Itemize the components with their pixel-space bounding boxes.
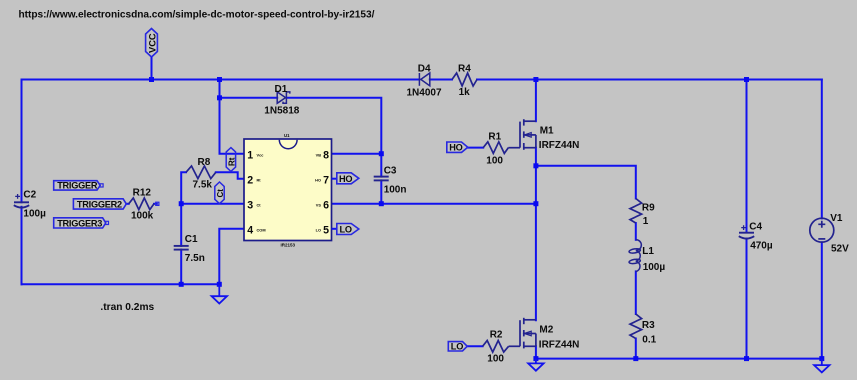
svg-text:100µ: 100µ <box>23 209 46 220</box>
svg-text:Ct: Ct <box>216 189 225 198</box>
chip notch <box>279 140 297 149</box>
svg-text:R8: R8 <box>198 157 211 168</box>
wire C4 top lead <box>746 80 748 233</box>
svg-text:2: 2 <box>247 174 253 186</box>
svg-text:.tran 0.2ms: .tran 0.2ms <box>100 302 154 313</box>
svg-text:100: 100 <box>487 354 504 365</box>
wire left rail upper (to C2) <box>21 80 23 203</box>
svg-text:D4: D4 <box>418 64 431 75</box>
svg-text:Vcc: Vcc <box>257 152 265 157</box>
wire R8 left drop upper <box>181 172 186 246</box>
svg-text:470µ: 470µ <box>750 241 773 252</box>
inductor L1 <box>629 240 642 272</box>
wire C1 bottom lead <box>180 250 182 285</box>
resistor R9 <box>630 199 642 224</box>
wire pin6 VS net <box>332 203 536 205</box>
svg-text:1: 1 <box>643 216 649 227</box>
svg-text:7: 7 <box>323 174 329 186</box>
svg-text:TRIGGER: TRIGGER <box>57 181 98 191</box>
wire VCC drop to pin1 <box>220 80 245 154</box>
wire bottom-left ground rail <box>22 283 220 285</box>
svg-text:100: 100 <box>486 156 503 167</box>
svg-text:7.5k: 7.5k <box>193 180 213 191</box>
wire V1 top lead <box>821 80 823 219</box>
svg-text:R2: R2 <box>490 329 503 340</box>
svg-text:HO: HO <box>315 177 321 182</box>
resistor R12 <box>129 198 154 210</box>
svg-text:VB: VB <box>316 152 322 157</box>
svg-text:M2: M2 <box>539 325 553 336</box>
svg-text:TRIGGER3: TRIGGER3 <box>57 218 102 228</box>
wire M1 drain vertical <box>535 80 537 122</box>
svg-text:1k: 1k <box>459 87 471 98</box>
node junction dots <box>149 77 824 361</box>
wire pin8 stub <box>332 153 382 155</box>
wire R3 to bottom rail <box>635 339 637 359</box>
svg-text:C4: C4 <box>749 221 762 232</box>
VCC flag <box>146 29 158 80</box>
svg-text:D1: D1 <box>275 84 288 95</box>
wire top rail left segment <box>22 79 420 81</box>
svg-text:C3: C3 <box>384 165 397 176</box>
wire C3 top lead <box>380 154 382 177</box>
wire top rail right segment <box>477 79 822 81</box>
svg-text:C1: C1 <box>185 234 198 245</box>
diode D1 1N5818 schottky <box>277 92 290 103</box>
wire D1 cathode to pin8 drop <box>288 98 382 154</box>
capacitor C2 (polarized) <box>14 194 29 208</box>
net flag Rt <box>226 148 235 172</box>
svg-text:IR2153: IR2153 <box>281 243 296 248</box>
svg-text:1N4007: 1N4007 <box>407 88 442 99</box>
svg-text:5: 5 <box>323 225 329 237</box>
wire bottom power rail <box>536 358 822 360</box>
svg-text:R4: R4 <box>458 64 471 75</box>
net flag LO at M2 gate <box>448 341 467 351</box>
svg-text:52V: 52V <box>831 244 849 255</box>
wire C4 bottom lead <box>746 239 748 359</box>
capacitor C4 (polarized) <box>739 225 754 238</box>
svg-text:3: 3 <box>247 199 253 211</box>
svg-text:Ct: Ct <box>257 202 262 207</box>
svg-text:100k: 100k <box>131 211 154 222</box>
svg-text:C2: C2 <box>23 190 36 201</box>
net flag HO at M1 gate <box>447 142 468 153</box>
svg-text:8: 8 <box>323 149 329 161</box>
svg-text:100µ: 100µ <box>643 262 666 273</box>
capacitor C3 <box>374 177 389 181</box>
op-amp U1 IR2153 chip body <box>244 139 332 241</box>
wire HO flag to R1 <box>467 147 483 149</box>
svg-text:Rt: Rt <box>227 157 236 166</box>
wire D1 anode branch <box>220 97 278 99</box>
diode D4 1N4007 <box>419 73 429 86</box>
net flag Ct <box>215 182 224 204</box>
capacitor C1 <box>174 246 189 250</box>
svg-text:1N5818: 1N5818 <box>264 105 299 116</box>
ground (under M2 source) <box>528 359 543 371</box>
wire pin3 CT net <box>181 203 244 205</box>
svg-text:R1: R1 <box>488 132 501 143</box>
svg-text:IRFZ44N: IRFZ44N <box>539 140 580 151</box>
resistor R8 <box>186 166 216 179</box>
svg-text:LO: LO <box>451 341 463 351</box>
wire C3 bottom lead <box>380 180 382 203</box>
svg-text:IRFZ44N: IRFZ44N <box>539 339 580 350</box>
wire R9 to L1 <box>635 223 637 240</box>
voltage source V1 <box>810 218 834 242</box>
wire phase node to R9 column <box>536 166 636 199</box>
ground (under V1) <box>814 359 829 373</box>
svg-text:Rt: Rt <box>257 177 262 182</box>
svg-text:R9: R9 <box>642 202 655 213</box>
transistor M1 IRFZ44N <box>508 119 536 150</box>
svg-text:LO: LO <box>316 228 321 233</box>
wire M2 source to bottom rail <box>535 346 537 358</box>
svg-text:V1: V1 <box>830 213 843 224</box>
wire L1 to R3 <box>635 271 637 314</box>
wire pin4 COM to ground rail <box>219 229 244 284</box>
svg-text:R3: R3 <box>642 320 655 331</box>
svg-text:VCC: VCC <box>148 33 158 53</box>
svg-text:M1: M1 <box>540 125 554 136</box>
svg-text:100n: 100n <box>384 185 407 196</box>
wire left rail lower (C2 to bottom) <box>21 207 23 284</box>
transistor M2 IRFZ44N <box>509 318 536 349</box>
net flag TRIGGER2 <box>73 199 126 209</box>
wire R12 right lead (floating) <box>154 203 157 205</box>
wire V1 bottom lead <box>821 242 823 358</box>
svg-text:R12: R12 <box>133 188 152 199</box>
svg-text:U1: U1 <box>284 133 290 138</box>
wire R8 to pin2 <box>216 172 244 178</box>
resistor R4 <box>452 73 477 86</box>
svg-text:7.5n: 7.5n <box>185 253 205 264</box>
wire top rail between D4 and R4 <box>430 79 452 81</box>
net flag LO at pin5 <box>332 224 359 235</box>
svg-text:TRIGGER2: TRIGGER2 <box>77 199 122 209</box>
net flag TRIGGER3 <box>54 218 106 228</box>
svg-text:1: 1 <box>247 149 253 161</box>
wire mid vertical M1 source to M2 drain <box>535 166 537 320</box>
ground (signal, under pin4 node) <box>212 284 227 303</box>
wire LO flag to R2 <box>467 345 482 347</box>
svg-text:https://www.electronicsdna.com: https://www.electronicsdna.com/simple-dc… <box>19 9 375 20</box>
resistor R3 <box>630 314 642 339</box>
resistor R1 <box>483 142 508 154</box>
svg-text:LO: LO <box>340 225 352 235</box>
svg-text:0.1: 0.1 <box>642 335 656 346</box>
svg-text:6: 6 <box>323 199 329 211</box>
net flag HO at pin7 <box>332 173 359 184</box>
svg-text:HO: HO <box>449 143 462 153</box>
wire TRIGGER2 to R12 <box>126 203 128 205</box>
svg-text:L1: L1 <box>642 246 654 257</box>
net flag TRIGGER <box>54 181 100 190</box>
svg-text:HO: HO <box>339 174 352 184</box>
resistor R2 <box>483 341 509 353</box>
svg-text:COM: COM <box>257 228 266 233</box>
svg-text:VS: VS <box>316 202 322 207</box>
svg-text:4: 4 <box>247 225 253 237</box>
wire M1 source to phase node <box>535 148 537 166</box>
